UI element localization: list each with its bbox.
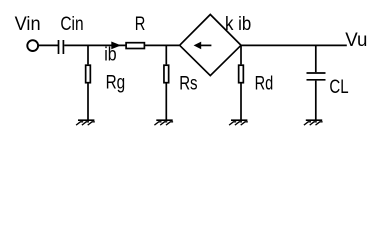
- wire source corner down to Rd: [240, 45, 242, 64]
- svg-text:Cin: Cin: [60, 14, 83, 35]
- svg-text:ib: ib: [104, 44, 116, 65]
- wire Rg to ground: [87, 84, 89, 120]
- wire junction down to Rg: [87, 45, 89, 64]
- resistor R: [126, 43, 144, 49]
- svg-text:Vu: Vu: [345, 30, 367, 51]
- source arrow tail: [201, 44, 212, 46]
- svg-text:R: R: [135, 14, 146, 35]
- ground below Rg: [76, 120, 95, 125]
- ground below Rs: [154, 120, 173, 125]
- ground below Rd: [229, 120, 248, 125]
- wire R to dependent source: [145, 44, 179, 46]
- ground below CL: [304, 120, 323, 125]
- svg-text:Vin: Vin: [15, 14, 41, 35]
- wire Rd to ground: [240, 84, 242, 120]
- source arrow head: [194, 42, 202, 50]
- wire Rs to ground: [165, 84, 167, 120]
- wire terminal to Cin: [39, 44, 58, 46]
- svg-text:Rs: Rs: [179, 73, 197, 94]
- wire CL to ground: [315, 81, 317, 120]
- svg-text:Rg: Rg: [106, 73, 126, 94]
- dependent current source diamond: [180, 15, 241, 76]
- svg-text:CL: CL: [329, 77, 348, 98]
- capacitor Cin: [59, 40, 64, 54]
- wire Cin to resistor R: [64, 44, 125, 46]
- wire source to output Vu: [241, 44, 347, 46]
- resistor Rd: [239, 65, 244, 83]
- current arrow ib: [111, 42, 121, 50]
- input terminal: [27, 40, 38, 51]
- wire junction down to CL: [315, 45, 317, 72]
- capacitor CL: [307, 73, 326, 80]
- svg-text:k ib: k ib: [225, 14, 251, 35]
- resistor Rs: [164, 65, 169, 83]
- wire junction down to Rs: [165, 45, 167, 64]
- resistor Rg: [86, 65, 91, 83]
- svg-text:Rd: Rd: [255, 74, 274, 95]
